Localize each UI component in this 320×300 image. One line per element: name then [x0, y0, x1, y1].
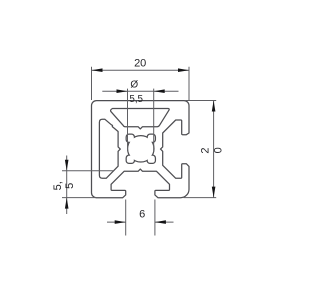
- dimension texts: [52, 57, 225, 220]
- bottom 6 ext lines: [125, 200, 127, 236]
- svg-text:6: 6: [139, 209, 145, 221]
- top cavity: [111, 109, 170, 129]
- profile outer silhouette with right and bottom T-slots: [92, 101, 190, 198]
- svg-text:0: 0: [213, 147, 225, 153]
- left arrows (outside): [65, 160, 69, 171]
- bottom 6 arrows (outside): [115, 220, 126, 224]
- right 20 dim line: [213, 101, 215, 198]
- bottom 6 dim segments: [107, 221, 126, 223]
- dimension lines: [62, 67, 216, 236]
- top 20: extension lines: [91, 67, 93, 100]
- left 5,5 dim line: [66, 156, 68, 215]
- dia 5,5 extension lines down to bore: [127, 89, 129, 151]
- svg-text:Ø: Ø: [130, 80, 138, 91]
- arrows: [65, 68, 216, 224]
- dia arrows (outside, pointing inward): [117, 89, 128, 93]
- svg-text:5,5: 5,5: [129, 94, 143, 105]
- left cavity: [99, 119, 120, 178]
- dia 5,5 dim line: [102, 90, 178, 92]
- top 20 arrows: [92, 68, 103, 72]
- right 20 arrows: [212, 101, 216, 112]
- svg-text:5: 5: [64, 183, 76, 189]
- svg-text:20: 20: [134, 57, 146, 69]
- svg-text:5,: 5,: [52, 181, 64, 190]
- right 20 ext lines: [185, 100, 216, 102]
- center bore with 4 corner ears (union of circle + rounded tabs): [127, 135, 155, 163]
- svg-text:2: 2: [200, 148, 212, 154]
- left 5,5 ext lines: [62, 170, 114, 172]
- top 20 dim line: [92, 69, 190, 71]
